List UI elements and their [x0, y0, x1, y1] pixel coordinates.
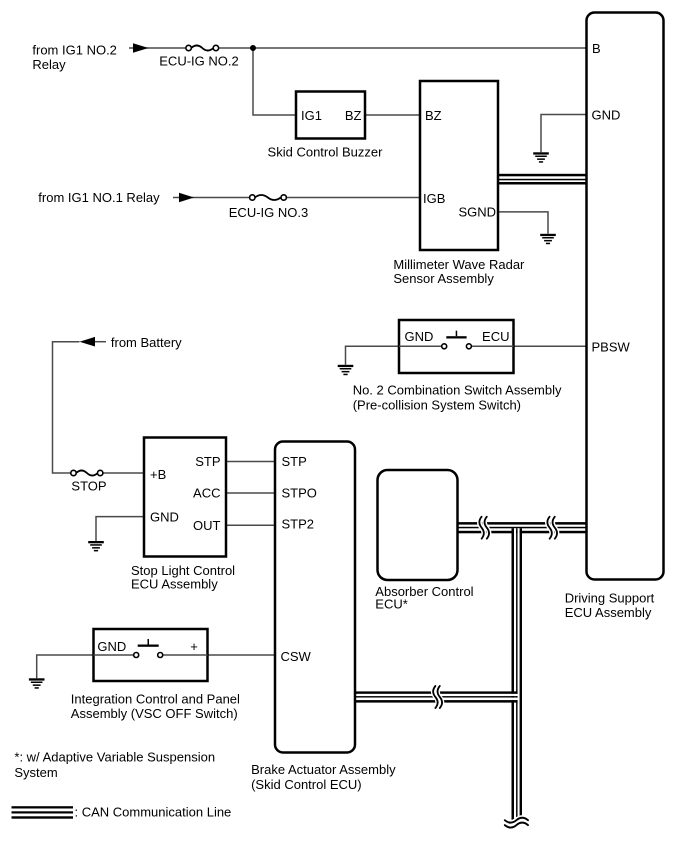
svg-text:Assembly (VSC OFF Switch): Assembly (VSC OFF Switch) [71, 706, 238, 721]
svg-text:Brake Actuator Assembly: Brake Actuator Assembly [251, 762, 396, 777]
svg-text:GND: GND [150, 509, 179, 524]
svg-text:from Battery: from Battery [111, 335, 182, 350]
svg-text:ECU Assembly: ECU Assembly [565, 605, 652, 620]
svg-text:GND: GND [592, 107, 621, 122]
svg-text:PBSW: PBSW [592, 340, 631, 355]
svg-text:STOP: STOP [71, 479, 106, 494]
svg-text:GND: GND [405, 329, 434, 344]
svg-text:STPO: STPO [282, 486, 317, 501]
svg-text:OUT: OUT [193, 518, 221, 533]
svg-text:+B: +B [150, 467, 166, 482]
svg-text:ECU-IG NO.3: ECU-IG NO.3 [229, 205, 308, 220]
svg-text:CSW: CSW [281, 649, 312, 664]
svg-text:B: B [592, 41, 601, 56]
svg-text:: CAN Communication Line: : CAN Communication Line [75, 805, 232, 820]
svg-text:Driving Support: Driving Support [565, 590, 655, 605]
svg-text:SGND: SGND [458, 205, 496, 220]
svg-text:from IG1 NO.2: from IG1 NO.2 [32, 42, 117, 57]
svg-text:No. 2 Combination Switch Assem: No. 2 Combination Switch Assembly [353, 382, 562, 397]
svg-text:+: + [190, 639, 198, 654]
svg-text:*: w/ Adaptive Variable Suspen: *: w/ Adaptive Variable Suspension [14, 750, 215, 765]
svg-text:Integration Control and Panel: Integration Control and Panel [71, 692, 240, 707]
svg-text:STP: STP [282, 454, 307, 469]
svg-text:BZ: BZ [345, 108, 362, 123]
svg-text:Skid Control Buzzer: Skid Control Buzzer [268, 145, 384, 160]
svg-text:Relay: Relay [32, 57, 66, 72]
svg-text:STP: STP [195, 454, 220, 469]
svg-text:Sensor Assembly: Sensor Assembly [393, 271, 494, 286]
svg-text:ECU Assembly: ECU Assembly [131, 577, 218, 592]
svg-text:(Skid Control ECU): (Skid Control ECU) [251, 777, 362, 792]
svg-text:GND: GND [97, 639, 126, 654]
svg-text:System: System [14, 765, 57, 780]
svg-text:ECU: ECU [482, 329, 509, 344]
svg-text:STP2: STP2 [282, 516, 315, 531]
svg-text:ACC: ACC [193, 485, 220, 500]
svg-text:ECU*: ECU* [375, 597, 408, 612]
svg-text:(Pre-collision System Switch): (Pre-collision System Switch) [353, 398, 521, 413]
svg-text:from IG1 NO.1 Relay: from IG1 NO.1 Relay [38, 190, 160, 205]
svg-text:IGB: IGB [423, 191, 445, 206]
svg-text:ECU-IG NO.2: ECU-IG NO.2 [159, 54, 238, 69]
svg-text:BZ: BZ [425, 108, 442, 123]
svg-text:Millimeter Wave Radar: Millimeter Wave Radar [393, 257, 525, 272]
svg-text:IG1: IG1 [301, 108, 322, 123]
